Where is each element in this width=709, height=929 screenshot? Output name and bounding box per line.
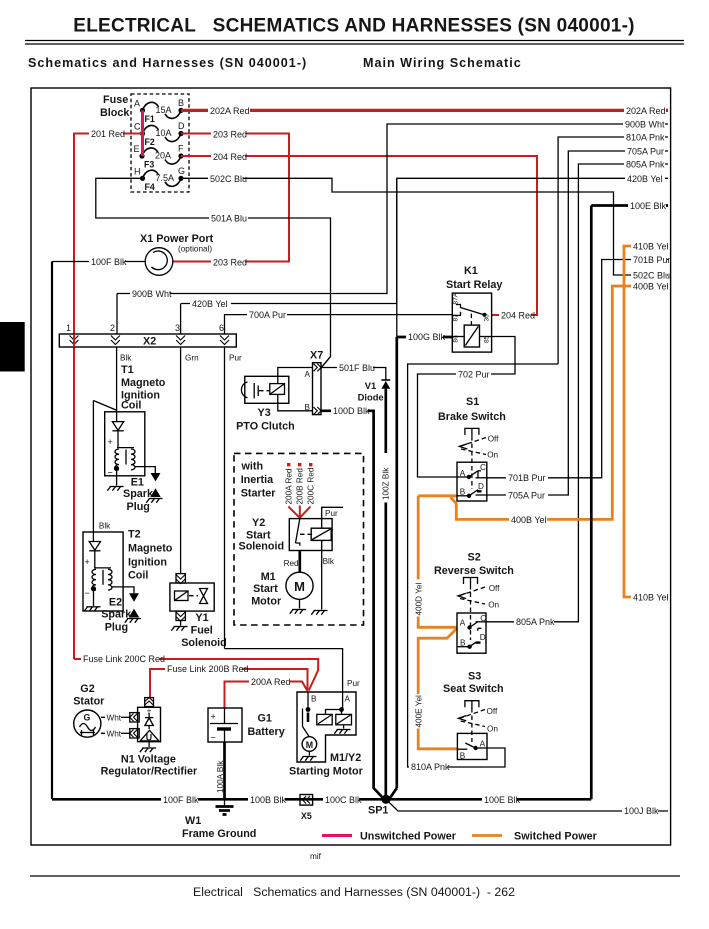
svg-text:Blk: Blk <box>120 354 132 363</box>
svg-text:Spark: Spark <box>123 488 154 500</box>
bus labels <box>161 793 362 805</box>
spark gap E1 <box>150 473 160 497</box>
wire 100J Blk <box>386 799 668 816</box>
T2 plus sign <box>85 557 90 567</box>
S1 pin B <box>457 488 471 498</box>
svg-text:200A Red: 200A Red <box>285 468 294 504</box>
Y2 switch arm <box>296 519 300 546</box>
K1 title <box>446 265 502 291</box>
left edge chapter tab <box>0 322 25 372</box>
wire 501F Blu <box>321 361 386 379</box>
Y3 body <box>245 376 289 403</box>
svg-text:Plug: Plug <box>127 501 150 513</box>
G1 minus <box>211 733 216 743</box>
relay K1 body <box>452 293 491 352</box>
S2 pin C <box>476 614 487 623</box>
svg-text:100C Blk: 100C Blk <box>325 795 362 805</box>
wire 200A Red <box>225 676 308 709</box>
svg-text:A: A <box>134 98 140 108</box>
S3 pin B <box>457 749 467 760</box>
svg-text:E2: E2 <box>109 597 122 609</box>
wire 701B Pur <box>487 254 671 484</box>
svg-text:200B Red: 200B Red <box>296 468 305 505</box>
starting motor pin B <box>306 695 317 712</box>
svg-text:Off: Off <box>487 707 498 716</box>
S3 pin A wire <box>476 747 487 749</box>
wire Blk X2-2 to T1 <box>117 347 133 412</box>
title double rule <box>25 41 684 45</box>
T1 winding junction dot <box>114 466 119 471</box>
T2 title <box>128 529 173 582</box>
Y2 body <box>289 519 332 551</box>
svg-text:PTO Clutch: PTO Clutch <box>236 421 295 433</box>
svg-text:202A Red: 202A Red <box>626 106 666 116</box>
svg-text:1: 1 <box>66 323 71 333</box>
N1 internal diode <box>145 707 153 730</box>
svg-text:V1: V1 <box>365 380 376 391</box>
svg-text:T2: T2 <box>128 529 141 541</box>
svg-text:Solenoid: Solenoid <box>239 541 285 553</box>
wire Pur to starting motor <box>225 649 361 692</box>
svg-text:701B Pur: 701B Pur <box>508 473 546 483</box>
wire 702 Pur <box>418 337 516 478</box>
svg-text:Start Relay: Start Relay <box>446 279 502 291</box>
S2 title <box>434 552 514 578</box>
G1 plus <box>210 712 238 724</box>
svg-text:100F Blk: 100F Blk <box>91 257 127 267</box>
wire 202A Red <box>181 104 668 116</box>
svg-text:Magneto: Magneto <box>121 377 166 389</box>
wire 203 Red <box>173 128 289 269</box>
G2 wht wire lower <box>101 727 130 739</box>
T1 title <box>121 364 166 412</box>
Y1 label <box>181 612 227 649</box>
ground W1 <box>216 799 234 814</box>
svg-text:D: D <box>480 633 486 642</box>
svg-text:C: C <box>480 463 486 472</box>
wire 700A Pur <box>225 309 453 334</box>
svg-text:100E Blk: 100E Blk <box>630 201 667 211</box>
S1 pin C <box>476 463 487 478</box>
svg-text:200C Red: 200C Red <box>307 467 316 504</box>
fuse F1 15A <box>134 98 184 124</box>
svg-text:Starting Motor: Starting Motor <box>289 766 364 778</box>
X1 power port connector <box>145 248 173 276</box>
svg-text:702 Pur: 702 Pur <box>458 369 490 379</box>
V1 label <box>358 380 384 403</box>
svg-text:410B Yel: 410B Yel <box>633 242 669 252</box>
wire 810A Pnk lower run <box>408 364 558 773</box>
Y1 coil symbol <box>175 591 199 601</box>
wire 900B Wht <box>117 118 668 300</box>
X2 pin 2 <box>110 323 120 345</box>
schematic border frame <box>31 88 671 845</box>
svg-text:G2: G2 <box>80 683 94 695</box>
svg-text:A: A <box>480 740 486 749</box>
svg-text:203 Red: 203 Red <box>213 130 247 140</box>
svg-text:100D Blk: 100D Blk <box>333 406 370 416</box>
T2 winding junction dot <box>91 586 96 591</box>
svg-text:Starter: Starter <box>241 488 277 500</box>
svg-text:Inertia: Inertia <box>241 474 274 486</box>
svg-text:(optional): (optional) <box>178 245 212 254</box>
svg-text:Electrical Schematics and Ha: Electrical Schematics and Harnesses (SN … <box>193 885 515 899</box>
svg-text:Off: Off <box>488 435 499 444</box>
T1 transformer <box>115 448 135 470</box>
svg-text:Pur: Pur <box>347 679 360 688</box>
svg-text:202A Red: 202A Red <box>210 106 250 116</box>
connector X2 body <box>59 334 236 348</box>
starting motor ground <box>300 751 316 760</box>
G2 upper connector <box>130 713 140 722</box>
S1 stem dashed <box>471 436 473 489</box>
svg-text:X1 Power Port: X1 Power Port <box>140 233 214 245</box>
svg-text:Blk: Blk <box>323 557 335 566</box>
svg-text:mif: mif <box>310 852 322 861</box>
svg-text:G1: G1 <box>258 713 272 725</box>
K1 pin 30 <box>484 314 491 322</box>
svg-text:Reverse Switch: Reverse Switch <box>434 565 514 577</box>
svg-text:30: 30 <box>484 314 491 322</box>
page title <box>73 16 634 37</box>
wire 501A Blu from fuse H <box>96 178 331 368</box>
S1 contact A-C <box>469 471 481 478</box>
svg-text:Schematics and Harnesses (SN 0: Schematics and Harnesses (SN 040001-) <box>28 56 307 70</box>
T2 internal diode <box>89 532 100 568</box>
svg-text:201 Red: 201 Red <box>91 129 125 139</box>
wire 400E Yel <box>414 628 457 749</box>
T1 ground <box>107 468 123 490</box>
K1 pin 85 <box>480 335 492 343</box>
svg-text:On: On <box>488 601 499 610</box>
Y3 clutch symbol <box>241 382 269 398</box>
svg-text:805A Pnk: 805A Pnk <box>516 617 555 627</box>
svg-text:Red: Red <box>284 559 299 568</box>
X2 pin 3 <box>175 323 185 345</box>
svg-text:400E Yel: 400E Yel <box>414 695 423 728</box>
svg-text:100B Blk: 100B Blk <box>250 795 287 805</box>
wire Fuse Link 200C Red <box>74 653 318 691</box>
starting motor M <box>302 727 317 752</box>
svg-text:A: A <box>345 695 351 704</box>
S1 pin A <box>457 469 471 479</box>
Y3 label <box>236 407 295 433</box>
splice SP1 <box>368 795 391 817</box>
T2 transformer <box>92 568 112 590</box>
svg-text:T1: T1 <box>121 364 134 376</box>
Y3 wire to X7-B <box>278 394 313 410</box>
svg-text:−: − <box>211 733 216 743</box>
svg-text:Switched Power: Switched Power <box>514 831 598 843</box>
svg-text:M: M <box>294 579 305 594</box>
svg-text:705A Pur: 705A Pur <box>508 490 545 500</box>
footer rule <box>30 875 680 877</box>
X2 pin3 stub up <box>180 304 182 335</box>
S2 contact B-D <box>470 642 481 647</box>
svg-text:Frame Ground: Frame Ground <box>182 828 256 840</box>
starting motor coil links <box>326 710 342 715</box>
wire 201 Red <box>74 127 143 659</box>
svg-text:Coil: Coil <box>128 570 148 582</box>
connector X7 body <box>310 350 323 415</box>
G2 title <box>73 683 105 708</box>
svg-text:E1: E1 <box>131 477 144 489</box>
svg-text:Pur: Pur <box>325 509 338 518</box>
S2 stem dashed <box>470 585 472 640</box>
starting motor B feed stub <box>307 692 309 710</box>
svg-text:100G Blk: 100G Blk <box>408 332 446 342</box>
svg-text:Unswitched Power: Unswitched Power <box>360 831 457 843</box>
svg-text:Solenoid: Solenoid <box>181 637 227 649</box>
starting motor coil 2 <box>336 714 352 724</box>
svg-text:501F Blu: 501F Blu <box>339 363 375 373</box>
svg-text:Ignition: Ignition <box>128 557 167 569</box>
svg-text:F2: F2 <box>145 137 155 147</box>
svg-text:Pur: Pur <box>229 354 242 363</box>
svg-text:Stator: Stator <box>73 696 105 708</box>
G2 wht wire upper <box>101 711 130 723</box>
S2 off-on arm <box>458 584 500 610</box>
svg-text:Motor: Motor <box>251 596 282 608</box>
svg-text:400B Yel: 400B Yel <box>633 282 669 292</box>
svg-text:100J Blk: 100J Blk <box>624 806 659 816</box>
svg-text:100Z Blk: 100Z Blk <box>382 467 391 500</box>
svg-text:U: U <box>146 733 152 743</box>
wire 400B Yel <box>451 280 669 525</box>
S1 plunger <box>465 428 479 436</box>
Y2 title <box>239 517 285 553</box>
T1 branch diagonal <box>93 401 116 533</box>
wire 201 Red through X2 pin 1 <box>73 334 75 347</box>
svg-text:200A Red: 200A Red <box>251 677 291 687</box>
K1 armature dashed link <box>470 314 472 326</box>
svg-text:Spark: Spark <box>101 609 132 621</box>
svg-text:G: G <box>84 713 91 723</box>
wire tag 200A Red <box>285 463 294 505</box>
S3 off-on arm <box>458 707 498 734</box>
S3 stem dashed <box>471 708 473 742</box>
wire 100Z Blk <box>382 389 391 800</box>
svg-text:15A: 15A <box>156 105 172 115</box>
svg-text:100A Blk: 100A Blk <box>216 760 225 793</box>
svg-text:G: G <box>178 166 185 176</box>
T2 secondary to spark gap <box>112 587 134 593</box>
legend unswitched power <box>322 831 457 843</box>
T2 coil box <box>83 532 123 611</box>
T2 minus sign <box>85 588 90 598</box>
wire 420B Yel <box>181 172 668 310</box>
K1 contact arm <box>461 308 487 317</box>
inertia starter label <box>241 461 277 500</box>
svg-text:E: E <box>134 144 140 154</box>
fuse F4 7.5A <box>134 166 185 192</box>
svg-text:X2: X2 <box>143 336 156 348</box>
svg-text:900B Wht: 900B Wht <box>625 120 665 130</box>
svg-text:204 Red: 204 Red <box>501 311 535 321</box>
svg-text:501A Blu: 501A Blu <box>211 214 247 224</box>
svg-text:204 Red: 204 Red <box>213 152 247 162</box>
S2 pin B <box>457 639 472 649</box>
K1 coil <box>464 325 479 347</box>
svg-text:420B Yel: 420B Yel <box>627 174 663 184</box>
fuse F3 20A <box>134 144 185 170</box>
svg-text:B: B <box>311 695 317 704</box>
svg-text:502C Blu: 502C Blu <box>210 174 247 184</box>
svg-text:K1: K1 <box>464 265 478 277</box>
svg-text:with: with <box>241 461 264 473</box>
svg-text:Plug: Plug <box>105 622 128 634</box>
S3 connector box <box>457 733 487 759</box>
S1 contact B-D <box>469 490 482 496</box>
svg-text:Grn: Grn <box>185 354 199 363</box>
Y1 valve symbol <box>200 589 208 604</box>
svg-text:20A: 20A <box>155 151 171 161</box>
wire 410B Yel <box>624 240 669 603</box>
Y2 dashed link <box>300 533 311 535</box>
svg-text:Fuse Link 200B Red: Fuse Link 200B Red <box>167 664 249 674</box>
wire 705A Pur <box>487 145 668 501</box>
wire Blk label T2 <box>99 522 111 531</box>
wire 100G Blk spine <box>390 178 397 798</box>
X2 pin2 stub up <box>116 294 118 335</box>
svg-text:A: A <box>305 370 311 379</box>
Y2 Blk ground leg <box>311 540 335 614</box>
svg-text:810A Pnk: 810A Pnk <box>411 762 450 772</box>
T1 internal diode <box>112 412 123 448</box>
Y2 coil <box>311 528 331 540</box>
svg-text:D: D <box>478 482 484 491</box>
svg-text:Wht: Wht <box>107 730 122 739</box>
inertia starter dashed box <box>234 453 364 625</box>
svg-text:Y2: Y2 <box>252 517 265 529</box>
wire 100E Blk top run <box>591 200 668 212</box>
S2 connector box <box>457 613 486 653</box>
wire Red Y2 to M1 <box>284 551 300 573</box>
svg-text:6: 6 <box>219 323 224 333</box>
svg-text:−: − <box>108 468 113 478</box>
S1 pin D <box>476 482 487 495</box>
svg-text:410B Yel: 410B Yel <box>633 593 669 603</box>
svg-text:100E Blk: 100E Blk <box>484 795 521 805</box>
svg-text:87A: 87A <box>453 292 460 304</box>
generator G2 <box>74 710 101 737</box>
svg-text:Off: Off <box>489 584 500 593</box>
G2 lower connector <box>130 729 140 738</box>
subtitle left <box>28 56 307 70</box>
T1 coil box <box>105 412 145 476</box>
wire Fuse Link 200B Red <box>150 663 308 698</box>
svg-text:502C Blu: 502C Blu <box>633 271 670 281</box>
svg-text:W1: W1 <box>185 815 201 827</box>
wire 100A Blk <box>216 742 225 799</box>
S3 pin A <box>480 740 486 749</box>
wire 810A Pnk upper run <box>558 131 668 364</box>
starting motor label <box>289 752 364 778</box>
starting motor pin A <box>339 692 350 712</box>
S1 title <box>438 396 506 423</box>
unswitched power bus bar A-C-E <box>141 110 144 156</box>
svg-text:705A Pur: 705A Pur <box>627 147 664 157</box>
Y3 coil symbol <box>270 384 285 395</box>
svg-text:X5: X5 <box>301 811 312 821</box>
svg-text:400D Yel: 400D Yel <box>414 583 423 616</box>
Y2 Pur feed stub <box>322 507 343 528</box>
E2 spark plug label <box>101 597 132 634</box>
svg-text:SP1: SP1 <box>368 805 388 817</box>
svg-text:F4: F4 <box>145 182 155 192</box>
S2 pin D <box>480 633 486 642</box>
svg-text:Brake Switch: Brake Switch <box>438 411 506 423</box>
svg-text:3: 3 <box>175 323 180 333</box>
svg-text:Fuel: Fuel <box>191 625 213 637</box>
battery G1 box <box>208 708 242 742</box>
S3 title <box>443 671 504 696</box>
Y1 ground <box>171 621 187 631</box>
wire 100G Blk to K1 <box>397 331 453 343</box>
X7 pin B <box>305 403 322 415</box>
K1 pin 87A <box>453 292 462 308</box>
svg-text:On: On <box>487 725 498 734</box>
svg-text:M1: M1 <box>261 571 276 583</box>
E1 spark plug label <box>123 477 154 514</box>
fuse block title <box>100 94 130 119</box>
wire 400D Yel <box>414 496 457 628</box>
svg-text:Wht: Wht <box>107 714 122 723</box>
svg-text:Coil: Coil <box>121 400 141 412</box>
svg-text:C: C <box>134 122 141 132</box>
E2 ground <box>125 619 141 623</box>
Y2 crow foot <box>288 506 310 518</box>
svg-text:10A: 10A <box>156 128 172 138</box>
starting motor coil 1 <box>317 714 332 724</box>
svg-text:Start: Start <box>253 583 278 595</box>
svg-text:700A Pur: 700A Pur <box>249 310 286 320</box>
svg-text:420B Yel: 420B Yel <box>192 299 228 309</box>
S3 contact arm <box>465 743 478 750</box>
svg-text:Battery: Battery <box>248 726 285 738</box>
svg-text:D: D <box>178 121 185 131</box>
svg-text:Blk: Blk <box>99 522 111 531</box>
wire Pur X2-6 down <box>225 347 243 649</box>
wire 100E Blk vertical <box>482 206 591 806</box>
svg-text:M1/Y2: M1/Y2 <box>330 752 361 764</box>
X7 pin A diagonal feed <box>321 357 331 369</box>
svg-text:Block: Block <box>100 107 130 119</box>
E1 ground <box>146 499 162 503</box>
S2 pin A <box>460 619 472 630</box>
svg-text:+: + <box>211 712 216 722</box>
wire 502C Blu from fuse G <box>181 173 670 282</box>
connector X5 <box>300 795 313 822</box>
svg-text:S2: S2 <box>468 552 481 564</box>
svg-text:900B Wht: 900B Wht <box>132 289 172 299</box>
subtitle right <box>363 56 522 70</box>
N1 label <box>101 754 198 778</box>
K1 pin 86 <box>452 335 464 343</box>
S1 off-on arm <box>459 435 499 460</box>
legend switched power <box>472 831 598 843</box>
spark gap E2 <box>129 593 139 617</box>
W1 label <box>182 815 256 840</box>
svg-text:Regulator/Rectifier: Regulator/Rectifier <box>101 766 198 778</box>
svg-text:Y1: Y1 <box>195 612 208 624</box>
starting motor coil ground <box>334 725 350 734</box>
T1 minus sign <box>108 468 113 478</box>
starting motor body <box>297 692 356 762</box>
X2 pin 6 <box>219 323 229 345</box>
svg-text:B: B <box>178 98 184 108</box>
svg-text:805A Pnk: 805A Pnk <box>626 160 665 170</box>
